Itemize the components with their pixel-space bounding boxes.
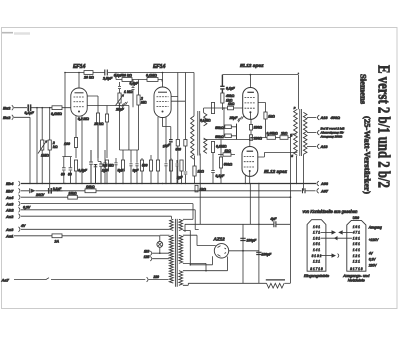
svg-text:50: 50 — [68, 173, 72, 177]
wire W2 top to AZ12 — [183, 235, 216, 245]
rail filter a x243 — [242, 224, 244, 283]
svg-text:20 kΩ: 20 kΩ — [83, 76, 94, 80]
terminal Aa4 — [19, 195, 21, 200]
svg-text:0,1µF: 0,1µF — [25, 111, 35, 115]
resistor 1kOhm grid stopper upper — [228, 106, 234, 110]
svg-text:Aa3: Aa3 — [5, 227, 14, 232]
resistor 40kOhm — [221, 93, 224, 103]
svg-text:U80: U80 — [353, 216, 359, 220]
connector Eingangsleiste outline — [307, 220, 326, 272]
svg-text:25µF: 25µF — [115, 108, 125, 112]
resistor 0,05kOhm feedback — [267, 136, 276, 140]
tube2 cathode components — [157, 117, 159, 184]
svg-text:5: 5 — [291, 154, 293, 158]
svg-text:(25-Watt-Verstärker): (25-Watt-Verstärker) — [363, 116, 373, 194]
resistor 0,2MOhm — [96, 113, 99, 123]
capacitor bottom n — [176, 160, 179, 184]
resistor 50kOhm bottom a — [74, 160, 77, 171]
wire grid upper EL12 — [204, 108, 243, 113]
bus row4 Aa3 — [21, 204, 193, 220]
svg-text:50kΩ: 50kΩ — [215, 135, 224, 139]
rail B+ x290.4 — [289, 134, 291, 283]
connector Ausgangs-Netzleiste outline — [347, 220, 366, 271]
svg-text:80 kΩ: 80 kΩ — [122, 73, 132, 77]
pins Eingangsleiste — [310, 225, 323, 271]
rail filter b x258.9 — [258, 184, 260, 284]
wire tube2 plate riser — [171, 73, 178, 184]
svg-text:50: 50 — [61, 173, 65, 177]
svg-text:125: 125 — [144, 255, 150, 259]
svg-text:A18: A18 — [320, 145, 329, 149]
capacitor bottom i — [136, 150, 139, 184]
tube EL12 upper — [243, 88, 258, 120]
resistor 2MOhm — [138, 80, 140, 96]
resistor 180 cathode upper — [250, 119, 252, 124]
svg-text:1kΩ: 1kΩ — [198, 170, 205, 174]
terminal Aa3 — [19, 201, 21, 206]
svg-text:1 8 1: 1 8 1 — [353, 236, 360, 240]
resistor 1kOhm small row — [195, 185, 198, 192]
junction dots row1 — [29, 183, 297, 184]
wire tap A16 — [307, 117, 316, 119]
capacitor 8uF bottom h — [130, 158, 133, 184]
svg-text:0,1MΩ: 0,1MΩ — [200, 119, 211, 123]
svg-text:0,2MΩ: 0,2MΩ — [78, 117, 89, 121]
resistor 0,1MOhm grid upper — [211, 103, 214, 114]
resistor bottom j — [140, 160, 143, 171]
bus row5 Ab2 — [21, 210, 199, 230]
svg-text:Aa2: Aa2 — [5, 214, 14, 219]
tap 110 — [150, 251, 169, 256]
resistor 10kOhm row3 — [68, 195, 78, 199]
terminal clip A07 — [317, 188, 319, 193]
svg-text:100µF: 100µF — [247, 239, 258, 243]
wire tube2 screen riser — [171, 73, 185, 151]
wire cathode bus y137.5 — [251, 134, 297, 138]
resistor 80kOhm — [122, 78, 132, 82]
terminal clip A08 — [317, 181, 319, 186]
wires bias network — [224, 108, 237, 139]
bottom rail y283.3 — [285, 282, 291, 284]
scan smudge top-left — [2, 32, 13, 34]
svg-text:2kΩ: 2kΩ — [280, 132, 288, 136]
svg-text:100µF: 100µF — [262, 253, 273, 257]
svg-text:1kΩ: 1kΩ — [268, 115, 275, 119]
transformer T1 secondary upper — [204, 113, 207, 126]
svg-text:10kΩ: 10kΩ — [86, 185, 95, 189]
terminal Aa2 — [19, 214, 21, 219]
resistor bleeder zigzag — [267, 283, 285, 288]
output transformer T2 primary — [294, 109, 298, 155]
wire riser x37 — [36, 108, 38, 184]
capacitor 0,1uF input — [28, 104, 30, 111]
transformer T1 secondary lower — [204, 138, 207, 153]
bus row8 Aa1 — [14, 235, 52, 237]
power transformer winding W3 — [179, 271, 183, 286]
capacitor 100uF a — [240, 238, 245, 240]
capacitor 4uF — [274, 221, 276, 227]
svg-text:0,1MΩ: 0,1MΩ — [146, 73, 157, 77]
svg-text:1 4 1: 1 4 1 — [313, 248, 320, 252]
wire W1 bottom filament — [183, 230, 213, 264]
svg-text:25µF: 25µF — [229, 116, 239, 120]
svg-text:1µF: 1µF — [177, 176, 184, 180]
wire riser x65 — [64, 73, 66, 157]
svg-text:0,05kΩ: 0,05kΩ — [267, 132, 278, 136]
svg-text:110: 110 — [144, 249, 149, 253]
wire top rail EL12 plates — [222, 75, 298, 88]
terminal clip A18 — [317, 144, 319, 149]
wire tube2 top cap — [162, 73, 164, 88]
svg-text:4V: 4V — [369, 251, 374, 255]
tube EL12 lower — [242, 147, 258, 177]
svg-text:E verst 2 b/1 und 2 b/2: E verst 2 b/1 und 2 b/2 — [374, 65, 392, 188]
terminal clip middle tap — [317, 130, 319, 135]
svg-text:Eb4: Eb4 — [6, 181, 14, 186]
rail cathode lower x250.3 — [249, 184, 251, 225]
svg-text:Ausgang 200Ω: Ausgang 200Ω — [320, 134, 343, 138]
resistor 50kOhm c — [219, 157, 222, 168]
power transformer winding W2 HT — [179, 235, 183, 263]
capacitor bottom b1 — [89, 150, 93, 184]
svg-text:A07: A07 — [320, 190, 329, 194]
wire sub rail y79.5 — [116, 73, 162, 82]
wire primary bottom to row1 — [296, 156, 298, 184]
transformer T1 primary winding — [191, 116, 194, 159]
svg-text:8 1 7 1 8: 8 1 7 1 8 — [350, 267, 363, 271]
wire riser x30 — [29, 117, 31, 183]
terminal Eu2 (upper input) — [12, 105, 27, 110]
svg-text:1 8 1: 1 8 1 — [313, 236, 320, 240]
svg-text:Netzleiste: Netzleiste — [348, 277, 366, 282]
wire grid stage1 — [31, 107, 71, 109]
resistor 0,1MOhm stage2 grid — [147, 78, 158, 82]
svg-text:Eingangsleiste: Eingangsleiste — [304, 273, 330, 278]
terminal Eu2 (lower input) — [12, 115, 30, 120]
bus row6 Aa2 — [21, 216, 171, 219]
svg-text:220V: 220V — [368, 263, 378, 267]
svg-text:AZ12: AZ12 — [213, 237, 226, 242]
svg-text:0,5µF: 0,5µF — [78, 169, 88, 173]
svg-text:20 kΩ: 20 kΩ — [93, 122, 104, 126]
svg-text:1 6 1: 1 6 1 — [353, 225, 360, 229]
svg-text:Aa7: Aa7 — [1, 278, 10, 283]
capacitor pair bottom left — [62, 157, 72, 184]
svg-text:Eu2: Eu2 — [3, 115, 11, 120]
resistor bottom g — [121, 160, 124, 171]
capacitor 0,1uF tone — [118, 82, 121, 93]
resistor bottom e — [105, 160, 108, 171]
svg-text:Siemens: Siemens — [359, 74, 369, 105]
resistor 500 bottom k — [149, 160, 152, 171]
resistor 50kOhm b — [225, 134, 232, 138]
svg-text:1 5 1: 1 5 1 — [353, 242, 360, 246]
svg-text:Eu2: Eu2 — [3, 106, 11, 111]
svg-text:50kΩ: 50kΩ — [224, 162, 233, 166]
capacitor 1uF bottom d — [104, 150, 107, 184]
rectifier tube AZ12 — [214, 244, 228, 258]
output transformer T2 core — [300, 109, 302, 156]
resistor 20kOhm screen — [106, 106, 108, 115]
svg-text:2,5µF: 2,5µF — [102, 76, 113, 80]
wire to output transformer primary top — [297, 75, 299, 110]
bus row7 Aa3 — [21, 228, 169, 230]
svg-text:180Ω: 180Ω — [254, 126, 263, 130]
wire tube1 top cap — [78, 73, 80, 89]
svg-text:1kΩ: 1kΩ — [228, 102, 235, 106]
wire row2 c — [96, 190, 302, 192]
wire secondary bottom to row2 — [302, 155, 304, 191]
capacitor 0,1uF screen top — [220, 75, 224, 93]
tap 220 — [147, 277, 169, 282]
svg-text:1 6 1: 1 6 1 — [313, 225, 320, 229]
terminal Aa3 lower — [19, 227, 21, 232]
wire top rail stage1 — [65, 72, 162, 74]
svg-text:50kΩ: 50kΩ — [215, 126, 224, 130]
wire W3 top loop — [183, 257, 228, 271]
resistor 2kOhm feedback — [280, 136, 288, 140]
line row3 connectors — [321, 237, 353, 239]
output transformer T2 secondary — [303, 112, 307, 154]
pins Ausgangsleiste — [350, 225, 363, 271]
terminal Eb4 — [19, 181, 21, 186]
svg-text:1 7 1: 1 7 1 — [313, 231, 320, 235]
svg-text:von Kontaktseite aus gesehen: von Kontaktseite aus gesehen — [303, 209, 359, 214]
tube EF14 second stage — [154, 87, 171, 118]
svg-text:1kΩ: 1kΩ — [225, 149, 232, 153]
resistor 1kOhm upper right — [258, 103, 265, 138]
resistor 2kOhm — [49, 150, 51, 184]
svg-text:EL12 spez: EL12 spez — [240, 63, 264, 69]
wire tube1 plate out — [87, 96, 129, 150]
resistor bottom m — [169, 160, 172, 171]
resistor 50kOhm a — [225, 125, 232, 129]
svg-text:2A: 2A — [54, 240, 60, 244]
svg-text:500: 500 — [142, 164, 148, 168]
tube EF14 first stage — [71, 88, 87, 116]
potentiometer 1MOhm tone — [118, 93, 121, 103]
svg-text:201V: 201V — [35, 193, 45, 197]
wire AZ12 output — [229, 250, 259, 252]
power transformer core — [175, 219, 177, 287]
wire W2 bottom — [183, 263, 206, 270]
terminal clip A16 — [317, 115, 319, 120]
svg-text:0,1MΩ: 0,1MΩ — [51, 112, 62, 116]
resistor 180 cathode lower — [249, 135, 252, 141]
svg-text:Aa1: Aa1 — [5, 234, 14, 239]
potentiometer 1MOhm volume — [41, 140, 44, 150]
capacitor 25uF bias upper — [237, 116, 244, 139]
svg-text:220: 220 — [153, 275, 160, 279]
svg-text:6,3V: 6,3V — [369, 257, 377, 261]
wire riser x49.7 — [49, 108, 51, 140]
svg-text:1 4 1: 1 4 1 — [353, 248, 360, 252]
wire cathode lower to row1 — [245, 176, 249, 184]
svg-text:10µF: 10µF — [162, 143, 171, 149]
svg-text:4V: 4V — [20, 224, 26, 228]
wire grid lower EL12 — [204, 140, 250, 147]
wire top rail to T1 — [162, 72, 194, 74]
svg-text:1kΩ: 1kΩ — [226, 98, 233, 102]
wire riser to T1 primary — [193, 73, 195, 117]
power transformer primary winding — [169, 235, 173, 283]
resistor 0,1MOhm grid — [52, 106, 62, 110]
wire tap A18 — [307, 145, 316, 147]
resistor 10kOhm row2 — [85, 189, 96, 193]
wire lamp to primary top — [160, 234, 170, 236]
svg-text:kΩ: kΩ — [53, 145, 58, 149]
diode arrow row2 — [21, 188, 30, 193]
capacitor 2,5uF coupling — [105, 70, 108, 76]
svg-text:1 5 1: 1 5 1 — [313, 242, 320, 246]
wire sub rail y150 — [120, 150, 139, 158]
resistor 0,1MOhm grid lower — [211, 142, 214, 153]
terminal Ab2 — [19, 207, 21, 212]
svg-text:6,3V: 6,3V — [23, 206, 31, 210]
tap 125 — [150, 256, 169, 261]
capacitor 0,1uF lower bias — [211, 170, 215, 183]
svg-text:1 2 1: 1 2 1 — [353, 254, 360, 258]
capacitor 5uF bottom f — [115, 158, 118, 184]
arrow row6 left connector — [321, 255, 332, 257]
svg-text:40kΩ: 40kΩ — [225, 94, 235, 98]
lamp indicator — [157, 242, 163, 248]
svg-text:1 2 1: 1 2 1 — [313, 260, 320, 264]
svg-text:+220V: +220V — [369, 238, 379, 242]
svg-text:1 2 1: 1 2 1 — [353, 260, 360, 264]
tube1 cathode wires — [76, 116, 82, 183]
resistor 100 cathode1 — [74, 138, 77, 148]
capacitor 0,1uF row2 — [49, 188, 52, 194]
svg-text:500: 500 — [176, 147, 182, 151]
resistor 1kOhm lower grid — [223, 153, 231, 156]
transformer T1 core — [198, 111, 200, 156]
svg-text:8µF: 8µF — [133, 169, 140, 173]
svg-text:8 1 3 1: 8 1 3 1 — [312, 254, 322, 258]
svg-text:MΩ: MΩ — [141, 100, 147, 104]
capacitor 25uF slant — [122, 102, 128, 108]
capacitor 0,5uF — [132, 80, 135, 108]
wire row2 — [36, 190, 63, 192]
wire tap middle — [307, 132, 316, 134]
svg-text:Ab2: Ab2 — [5, 208, 14, 213]
svg-text:Ausgang: Ausgang — [368, 225, 382, 229]
resistor 1kOhm T1 bleed a — [194, 156, 196, 167]
wire W3 bottom to rail — [183, 283, 267, 285]
rail T1 secondary return — [199, 154, 201, 225]
svg-text:10kΩ: 10kΩ — [69, 192, 78, 196]
svg-text:EF14: EF14 — [153, 64, 166, 70]
arrow pair row2 connectors — [321, 231, 332, 233]
svg-text:4 7 1: 4 7 1 — [353, 231, 360, 235]
wire smoothing bus y224.3 — [185, 223, 290, 225]
capacitor before A07 — [303, 188, 306, 193]
svg-text:0,1µF: 0,1µF — [114, 74, 124, 78]
svg-text:Aa4: Aa4 — [5, 195, 14, 200]
fuse 2A — [52, 234, 62, 238]
svg-text:p: p — [293, 106, 296, 110]
svg-text:0,5µF: 0,5µF — [130, 82, 140, 86]
svg-text:8 1 7 1 8: 8 1 7 1 8 — [310, 267, 323, 271]
capacitor 100uF b — [256, 252, 261, 254]
svg-text:EF14: EF14 — [73, 64, 86, 70]
svg-text:0,1µF: 0,1µF — [216, 174, 226, 178]
wire W1 top to row4 — [183, 218, 193, 220]
resistor bottom o — [180, 160, 183, 171]
capacitor bottom c — [99, 162, 103, 184]
bus row9 mains — [14, 278, 145, 280]
capacitor 1uF rail — [184, 150, 188, 184]
terminal Eb7 — [19, 188, 21, 193]
svg-text:4µF: 4µF — [270, 217, 278, 221]
svg-text:100: 100 — [64, 142, 70, 146]
wire row2 b — [52, 190, 86, 192]
bus row1 Eb4 ground — [21, 183, 316, 185]
resistor 20kOhm anode1 — [84, 71, 93, 75]
bus row3 Aa4 — [21, 196, 290, 198]
wire riser x42 to pot — [41, 108, 43, 140]
svg-text:Eb7: Eb7 — [6, 189, 14, 194]
svg-text:1 MΩ: 1 MΩ — [124, 90, 133, 94]
svg-text:A08: A08 — [320, 182, 329, 186]
svg-text:0,1µF: 0,1µF — [226, 87, 236, 91]
svg-text:A16 400Ω: A16 400Ω — [320, 116, 340, 120]
power transformer winding W1 — [179, 219, 183, 230]
svg-text:Aa3: Aa3 — [5, 201, 14, 206]
svg-text:EL12 spez: EL12 spez — [264, 169, 288, 174]
power transformer winding W0 heater left — [170, 219, 174, 230]
wire plate lower to transformer — [258, 153, 298, 158]
